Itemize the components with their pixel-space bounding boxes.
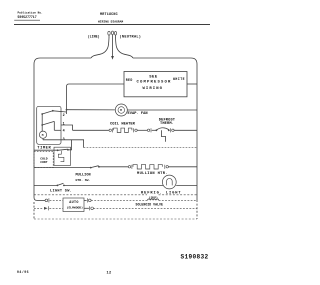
svg-text:M: M xyxy=(120,109,122,112)
label SOLENOID VALVE xyxy=(136,203,164,207)
wire compressor rung xyxy=(69,83,124,85)
node evap-fan tap junction xyxy=(66,109,68,111)
connector coil heater right xyxy=(134,128,148,132)
svg-text:5995277717: 5995277717 xyxy=(18,15,37,19)
svg-text:HTR. SW.: HTR. SW. xyxy=(76,178,91,182)
timer terminal 3 xyxy=(63,138,65,142)
wire row B to box dashed xyxy=(49,207,63,209)
connector coil heater left xyxy=(109,128,113,132)
svg-text:CONT: CONT xyxy=(40,161,47,164)
svg-text:M: M xyxy=(42,134,44,137)
motor timer M xyxy=(39,131,46,138)
svg-text:WIRING: WIRING xyxy=(143,87,164,91)
node timer pivot xyxy=(41,124,43,126)
svg-text:COIL HEATER: COIL HEATER xyxy=(110,123,136,127)
wire left rail dashed lower xyxy=(33,202,35,219)
timer terminal 4 xyxy=(63,129,65,133)
wire neutral-side S-curve from plug xyxy=(116,38,134,58)
svg-text:4: 4 xyxy=(63,129,65,133)
wire row A box to connector xyxy=(84,199,87,201)
svg-text:S190832: S190832 xyxy=(181,254,209,261)
wire auto damper row A left xyxy=(37,199,45,201)
publication number text xyxy=(18,11,43,20)
wire top rail right xyxy=(133,58,197,64)
svg-text:12: 12 xyxy=(107,271,112,275)
label AUTO (ELMWOOD) xyxy=(67,201,83,209)
svg-text:REFRIG. LIGHT: REFRIG. LIGHT xyxy=(141,192,181,196)
timer box xyxy=(37,106,61,144)
compressor box text xyxy=(137,75,172,91)
wire left rail xyxy=(34,64,37,200)
resistor coil heater xyxy=(114,128,132,132)
switch mullion heater xyxy=(90,166,100,169)
motor evap fan xyxy=(115,104,127,116)
label (SUP) xyxy=(149,196,158,200)
svg-text:EVAP. FAN: EVAP. FAN xyxy=(128,112,148,116)
wiring diagram title xyxy=(98,21,123,24)
cold control label dashed box xyxy=(34,151,53,167)
wire drop to timer terminal 2 xyxy=(66,87,68,115)
wire line-side S-curve from plug xyxy=(91,38,109,58)
svg-text:Publication No.: Publication No. xyxy=(18,11,43,15)
svg-text:(ELMWOOD): (ELMWOOD) xyxy=(67,205,83,209)
power plug prongs xyxy=(108,31,117,38)
wire coil heater rung xyxy=(73,129,109,131)
svg-text:MRT18CNC: MRT18CNC xyxy=(100,13,118,17)
wire row B dashed to rail xyxy=(93,207,197,209)
wire timer terminal 3 to neutral xyxy=(43,138,84,147)
wire cold control feed xyxy=(34,149,58,151)
wire evap fan rung left xyxy=(67,109,116,111)
timer contact blade 2 xyxy=(42,121,61,130)
svg-text:MULLION HTR.: MULLION HTR. xyxy=(137,172,168,176)
label REFRIG. LIGHT xyxy=(141,192,181,196)
header rule xyxy=(14,24,210,26)
wire top rail left xyxy=(34,58,91,64)
svg-text:RED: RED xyxy=(126,78,133,82)
connector defrost therm right xyxy=(171,128,198,132)
timer terminal 2 xyxy=(63,114,65,118)
label LIGHT SW. xyxy=(50,190,72,194)
wire cold control to neutral jog xyxy=(68,140,72,150)
publication underline xyxy=(14,19,40,21)
resistor mullion heater xyxy=(133,165,162,169)
svg-text:SOLENOID VALVE: SOLENOID VALVE xyxy=(136,203,164,207)
switch light xyxy=(57,183,65,186)
label (LINE) xyxy=(88,34,100,38)
label MULLION HTR. SW. xyxy=(76,174,91,182)
ground wire with arrowhead xyxy=(111,35,114,60)
wire row A dashed to solenoid xyxy=(91,199,147,201)
label DEFROST THERM. xyxy=(159,118,176,126)
svg-text:COMPRESSOR: COMPRESSOR xyxy=(137,81,172,85)
optional section dashed bottom border xyxy=(34,218,197,220)
wire row B dashed left xyxy=(34,207,43,209)
svg-text:1: 1 xyxy=(63,123,65,127)
label COIL HEATER xyxy=(110,123,136,127)
wire right rail xyxy=(196,64,198,200)
part number S190832 xyxy=(181,254,209,261)
wire mullion heater rung left xyxy=(34,167,91,169)
wire evap fan rung right xyxy=(127,109,197,111)
switch cold control xyxy=(57,149,69,162)
wire row A to box dashed xyxy=(50,199,63,201)
thermostat defrost xyxy=(156,128,170,142)
wire light rung right xyxy=(176,184,197,186)
label TIMER xyxy=(37,147,51,151)
svg-text:04/96: 04/96 xyxy=(17,270,29,274)
auto damper box xyxy=(63,198,84,212)
svg-text:2: 2 xyxy=(63,114,65,118)
svg-text:(LINE): (LINE) xyxy=(88,34,100,38)
wire white to neutral rail xyxy=(187,83,197,85)
timer terminal 1 xyxy=(63,123,65,127)
svg-text:LIGHT SW.: LIGHT SW. xyxy=(50,190,72,194)
connector mullion heater right xyxy=(165,165,197,169)
wire mullion heater rung mid xyxy=(99,166,128,168)
connector mullion heater left xyxy=(128,165,132,169)
wire timer motor neutral run xyxy=(84,147,197,149)
svg-text:SEE: SEE xyxy=(149,75,158,79)
label EVAP. FAN xyxy=(128,112,148,116)
label COLD CONT xyxy=(40,157,47,164)
connector row B left xyxy=(44,206,49,210)
svg-text:WHITE: WHITE xyxy=(173,77,185,81)
model number text xyxy=(100,13,118,17)
wire timer terminal 1 jog xyxy=(61,125,73,130)
label MULLION HTR. xyxy=(137,172,168,176)
cold control switch box xyxy=(54,147,71,165)
svg-text:(NEUTRAL): (NEUTRAL) xyxy=(120,34,142,39)
label (NEUTRAL) xyxy=(120,34,142,39)
optional section dashed top border xyxy=(34,194,197,196)
label RED xyxy=(126,78,133,82)
label WHITE xyxy=(173,77,185,81)
wire row B box to connector xyxy=(84,207,89,209)
connector row A right xyxy=(87,198,91,202)
wire right rail dashed lower xyxy=(196,200,198,219)
footer page number xyxy=(107,271,112,275)
svg-text:WIRING DIAGRAM: WIRING DIAGRAM xyxy=(98,21,123,24)
lamp refrigerator light xyxy=(162,175,176,189)
svg-text:COLD: COLD xyxy=(40,157,47,160)
svg-text:AUTO: AUTO xyxy=(69,201,78,205)
svg-text:THERM.: THERM. xyxy=(160,122,174,126)
timer contact blade 1 xyxy=(41,110,66,115)
wire compressor feed corner xyxy=(67,84,70,87)
connector row B right xyxy=(90,206,94,210)
compressor box xyxy=(124,72,187,97)
connector defrost therm left xyxy=(147,128,156,132)
wire timer common vertical xyxy=(41,114,43,132)
coil solenoid valve xyxy=(148,199,159,200)
wire solenoid to rail dashed xyxy=(159,199,197,201)
footer date xyxy=(17,270,29,274)
connector row A left xyxy=(45,198,49,202)
wire light rung left xyxy=(34,184,57,186)
wire light rung mid xyxy=(64,184,163,186)
